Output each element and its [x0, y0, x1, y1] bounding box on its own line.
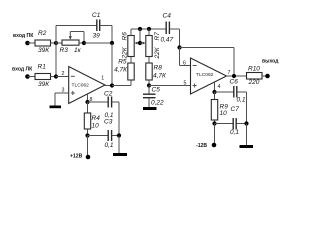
- resistor R6 22K trimmer: [128, 36, 134, 57]
- wire top bus right of C4: [170, 28, 180, 30]
- wire C1 loop top left: [56, 25, 97, 27]
- pin 4 wire: [214, 82, 216, 92]
- svg-text:R4: R4: [92, 115, 101, 122]
- ground C5: [143, 107, 157, 110]
- pin 7 output wire: [227, 75, 247, 77]
- wire node A to R3: [56, 42, 62, 44]
- svg-text:C1: C1: [92, 12, 101, 19]
- resistor R9 10: [214, 92, 216, 100]
- terminal -12V: [212, 143, 217, 148]
- wire C4 drop: [179, 29, 181, 48]
- node wiper top: [138, 27, 142, 31]
- svg-text:5: 5: [184, 81, 187, 87]
- wire R4 node to C3: [88, 135, 109, 137]
- node A: [54, 41, 58, 45]
- wire feedback column to output node: [111, 43, 113, 86]
- wire node to pin 5: [149, 85, 191, 87]
- wire +12 drop: [87, 136, 89, 158]
- svg-text:22К: 22К: [121, 46, 128, 59]
- node B: [82, 41, 86, 45]
- wire wiper column: [139, 29, 141, 43]
- capacitor C7 0,1: [232, 118, 234, 130]
- svg-text:0,1: 0,1: [237, 97, 246, 104]
- wire C2 right: [112, 101, 119, 103]
- node feedback2: [177, 45, 181, 49]
- svg-text:вход ПК: вход ПК: [13, 33, 34, 39]
- ground pin3: [50, 106, 62, 109]
- node pin8: [85, 100, 89, 104]
- svg-text:1: 1: [101, 76, 104, 82]
- output terminal выход: [265, 74, 270, 79]
- R7 wiper arrow: [140, 42, 143, 44]
- svg-text:4,7К: 4,7К: [153, 73, 167, 80]
- node C: [110, 41, 114, 45]
- resistor R8 4,7K: [146, 63, 152, 80]
- svg-text:R1: R1: [38, 64, 47, 71]
- resistor R5 4,7K: [128, 63, 134, 80]
- svg-text:3: 3: [62, 88, 65, 94]
- wire R9 node to C7: [215, 123, 234, 125]
- svg-text:C4: C4: [163, 13, 172, 20]
- svg-text:C6: C6: [230, 79, 239, 86]
- svg-text:6: 6: [183, 61, 186, 67]
- wire R6 top riser: [130, 29, 132, 36]
- wire feedback2 top: [180, 47, 235, 49]
- svg-text:0,1: 0,1: [105, 142, 114, 149]
- resistor R7 22K trimmer: [146, 36, 152, 57]
- svg-text:0,47: 0,47: [161, 37, 174, 44]
- wire C7 right: [236, 123, 246, 125]
- node R9 bottom: [212, 121, 216, 125]
- R6 wiper arrow: [137, 42, 140, 44]
- resistor R10 220: [247, 73, 263, 80]
- wire to ground right column: [246, 124, 248, 146]
- capacitor C6 0,1: [233, 86, 235, 98]
- wire input to R2: [28, 42, 36, 44]
- svg-text:R3: R3: [60, 47, 69, 54]
- svg-text:R8: R8: [154, 65, 163, 72]
- node pin4: [212, 90, 216, 94]
- capacitor C2 0,1: [107, 97, 109, 108]
- capacitor C5 0,22: [148, 86, 150, 95]
- capacitor C3 0,1: [107, 130, 109, 141]
- svg-text:4: 4: [218, 84, 221, 90]
- wire R8 bottom to node: [148, 80, 150, 86]
- resistor R1 39K: [35, 74, 51, 80]
- svg-text:вход ЛК: вход ЛК: [12, 67, 33, 73]
- ground C6 C7: [240, 145, 254, 148]
- node C7 right: [244, 121, 248, 125]
- svg-text:10: 10: [92, 123, 100, 130]
- wire pin4 to C6: [215, 91, 234, 93]
- input terminal вход ПК: [25, 41, 30, 46]
- R3 wiper arm: [69, 32, 71, 37]
- wire R3 to node B: [79, 42, 84, 44]
- trimmer R3 1k: [62, 40, 79, 45]
- resistor R2 39K: [35, 40, 51, 46]
- op-amp U1 TLC062: [69, 67, 105, 104]
- svg-text:22К: 22К: [154, 46, 161, 59]
- svg-text:0,22: 0,22: [151, 100, 164, 107]
- wire R7 to R8: [148, 57, 150, 64]
- svg-text:выход: выход: [262, 59, 279, 65]
- wire C1 loop left riser: [55, 26, 57, 44]
- svg-text:4,7К: 4,7К: [114, 67, 128, 74]
- svg-text:R6: R6: [121, 32, 128, 41]
- wire R5 to R6: [130, 57, 132, 64]
- ground C2 C3: [113, 153, 127, 156]
- svg-text:39К: 39К: [38, 81, 50, 88]
- svg-text:39: 39: [93, 33, 101, 40]
- wire R7 top riser: [148, 29, 150, 36]
- capacitor C1 39: [96, 20, 98, 32]
- node C5: [147, 83, 151, 87]
- wire input to R1: [28, 76, 36, 78]
- svg-text:C2: C2: [104, 91, 113, 98]
- svg-text:0,1: 0,1: [230, 129, 239, 136]
- svg-text:7: 7: [228, 70, 231, 76]
- wire C3 right: [112, 135, 119, 137]
- pin 1 output wire: [105, 85, 112, 87]
- node output2: [232, 74, 236, 78]
- svg-text:+12В: +12В: [70, 154, 83, 160]
- node pin2 summing: [54, 74, 58, 78]
- node R7 top: [147, 27, 151, 31]
- node C3 right: [117, 133, 121, 137]
- svg-text:R10: R10: [248, 66, 260, 73]
- pin 3 wire to ground: [55, 92, 69, 94]
- wire to ground left: [118, 136, 120, 154]
- svg-text:220: 220: [248, 79, 260, 86]
- wire C1 right drop: [111, 26, 113, 44]
- wire summing drop node A to pin2 node: [55, 43, 57, 77]
- wire node B to node C: [84, 42, 112, 44]
- wire C6 right: [237, 91, 247, 93]
- terminal +12V: [86, 155, 91, 160]
- svg-text:1к: 1к: [74, 47, 82, 54]
- input terminal вход ЛК: [25, 74, 30, 79]
- svg-text:TLC062: TLC062: [196, 72, 214, 78]
- wire -12 drop: [214, 124, 216, 146]
- svg-text:C5: C5: [152, 87, 161, 94]
- svg-text:C7: C7: [231, 106, 240, 113]
- resistor R4 10: [87, 102, 89, 113]
- node R4 bottom: [85, 133, 89, 137]
- svg-text:R2: R2: [38, 30, 47, 37]
- svg-text:39К: 39К: [38, 47, 50, 54]
- node wiper: [138, 41, 142, 45]
- wire C1 loop top right: [100, 25, 112, 27]
- wire pin8 to C2: [88, 101, 109, 103]
- wire R10 to output: [262, 75, 268, 77]
- wire R2 to node A: [51, 42, 57, 44]
- capacitor C4 0,47: [165, 22, 167, 35]
- op-amp U2 TLC062: [191, 58, 227, 94]
- svg-text:10: 10: [220, 110, 228, 117]
- svg-text:2: 2: [62, 71, 65, 77]
- wire output1 to R5: [112, 85, 131, 87]
- wire R1 to pin2 node: [51, 76, 57, 78]
- wire node to pin 6: [179, 48, 181, 66]
- node output1: [110, 83, 114, 87]
- svg-text:-12В: -12В: [196, 143, 207, 149]
- pin 8 wire: [87, 94, 89, 102]
- svg-text:C3: C3: [104, 119, 113, 126]
- wire top bus left: [131, 28, 166, 30]
- svg-text:TLC062: TLC062: [72, 83, 90, 89]
- wire node to pin 2: [56, 76, 69, 78]
- svg-text:R5: R5: [118, 59, 127, 66]
